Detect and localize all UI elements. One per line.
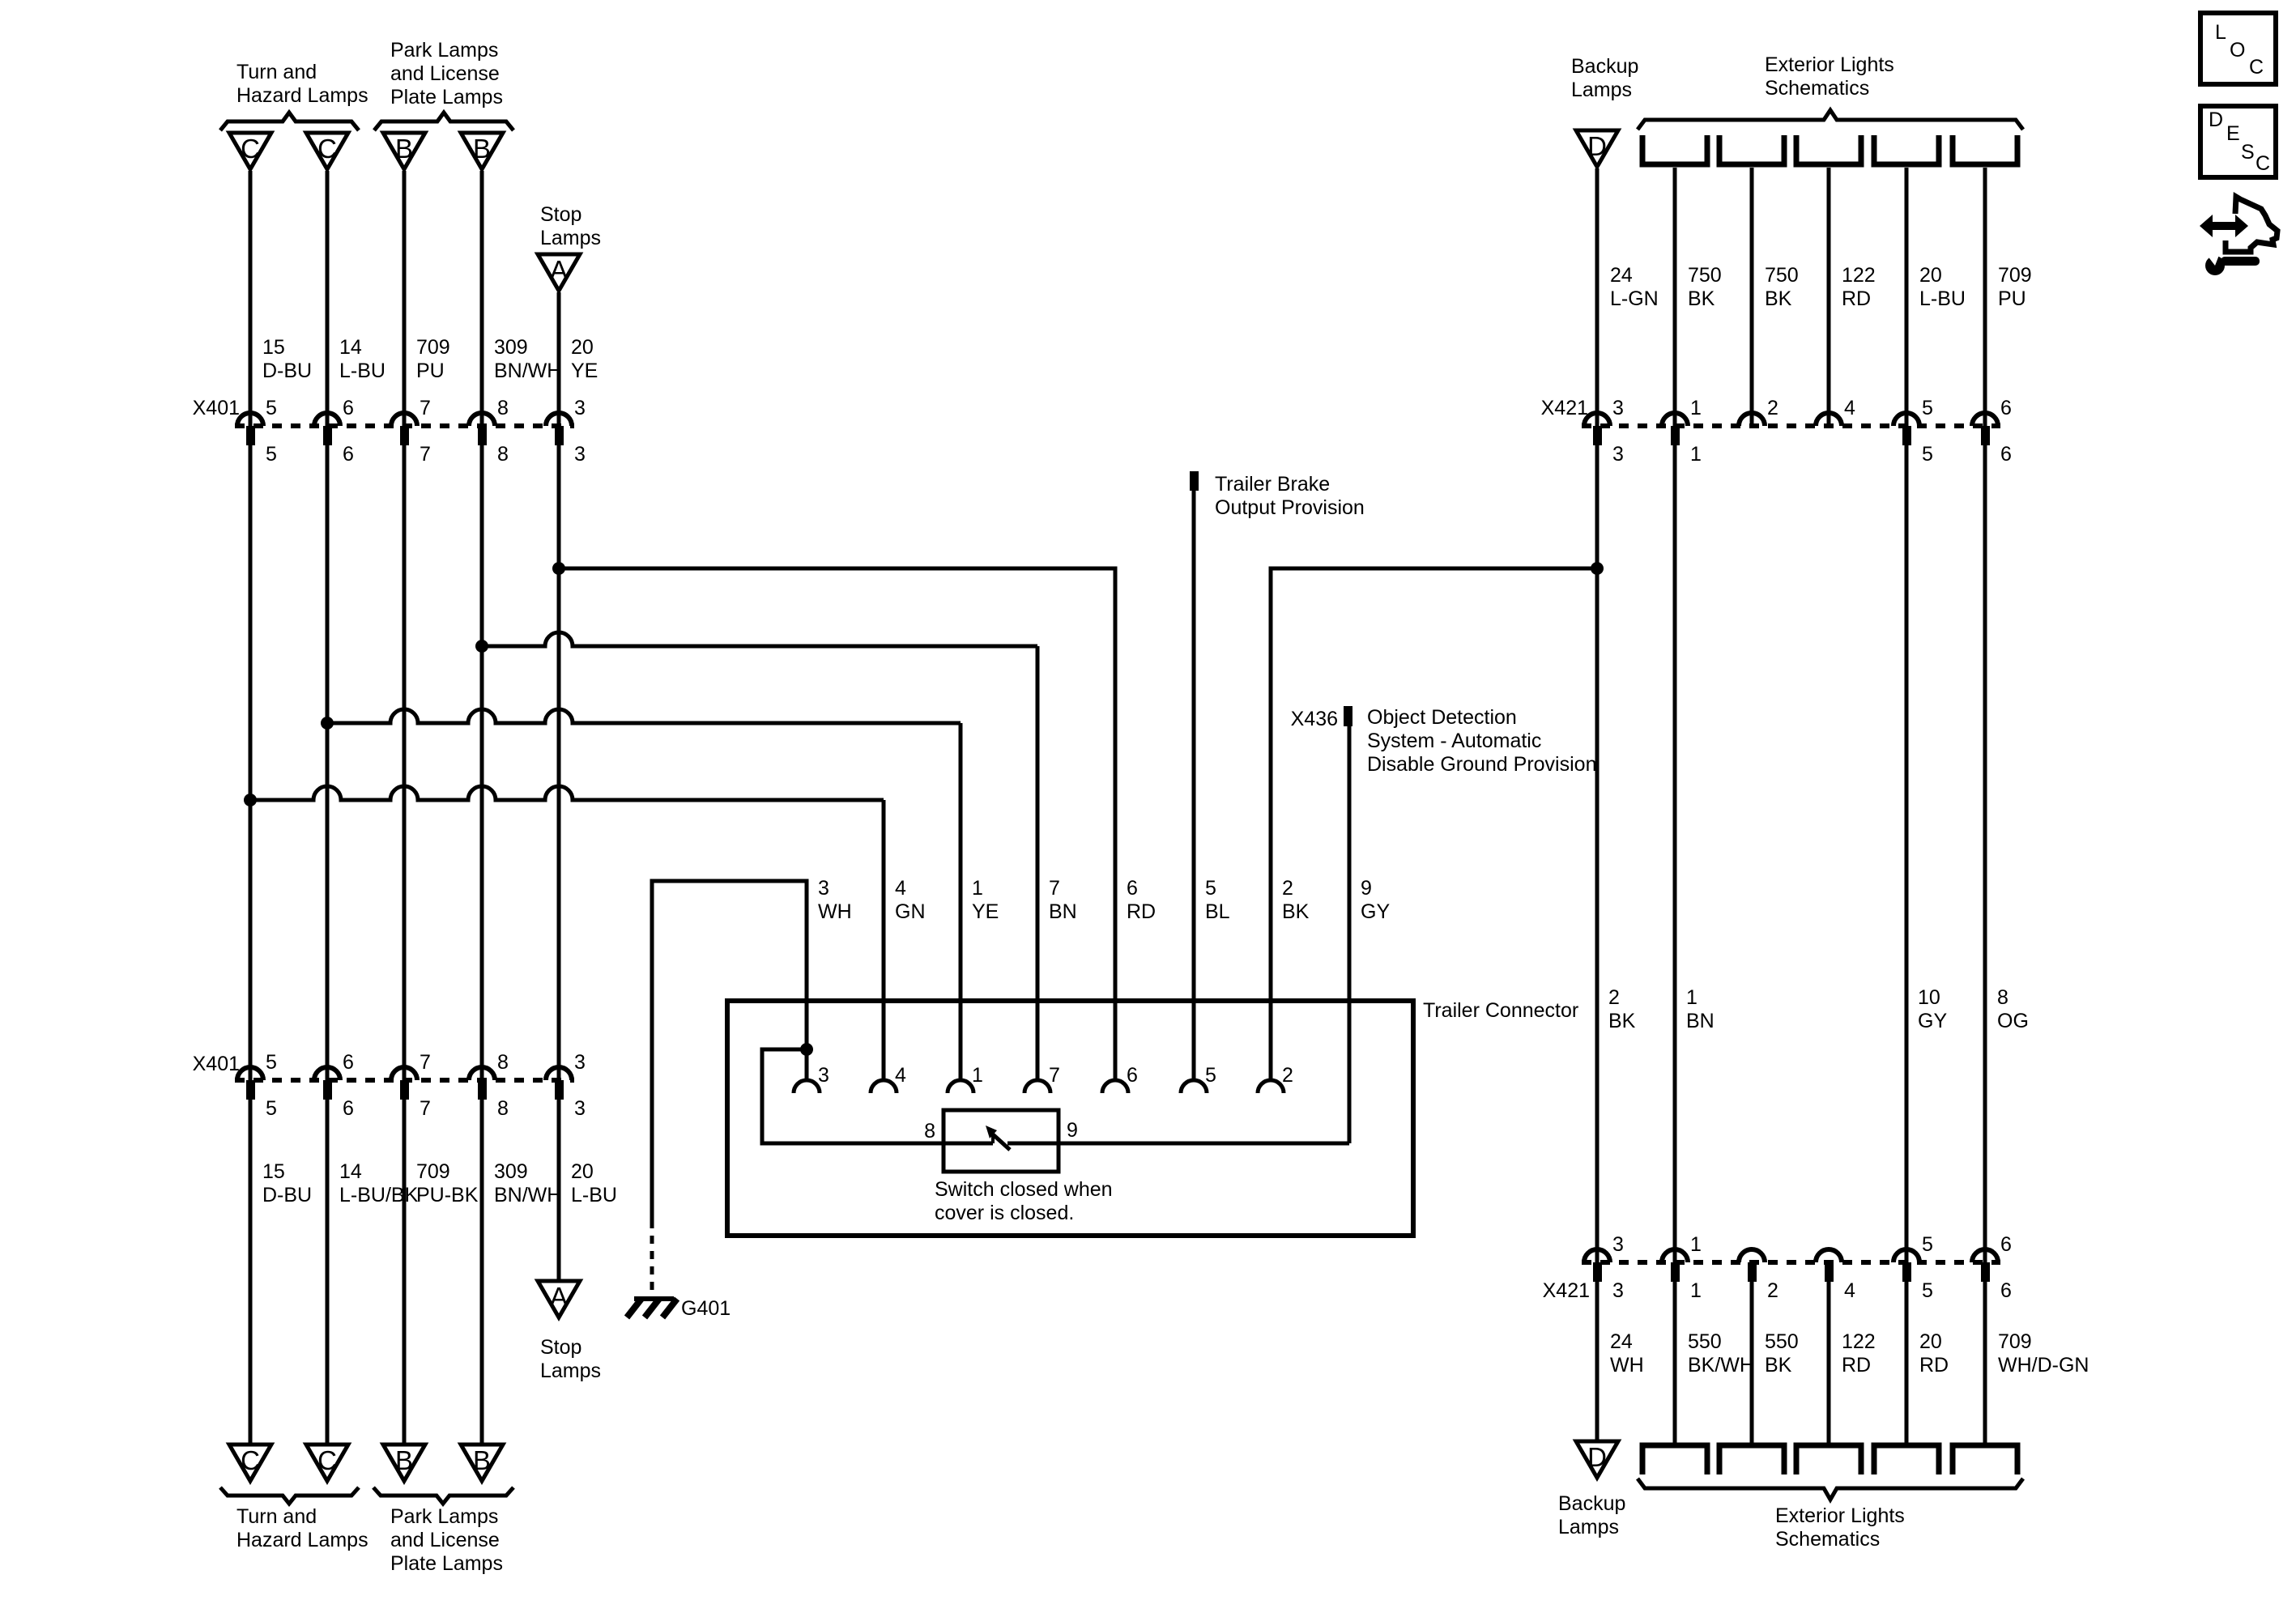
DESC reference box (2200, 106, 2276, 177)
svg-text:1: 1 (1690, 443, 1702, 466)
wire column BN/WH between X401 rows (480, 445, 484, 1080)
svg-text:B: B (395, 1445, 413, 1475)
svg-text:7: 7 (1049, 1064, 1060, 1087)
svg-text:122: 122 (1842, 264, 1876, 287)
svg-text:24: 24 (1610, 1330, 1633, 1353)
connector X421 bottom pin 1 plug (1671, 1262, 1680, 1282)
svg-text:4: 4 (1844, 397, 1855, 419)
svg-text:6: 6 (2000, 397, 2012, 419)
connector X401 top pin 8 socket arc (469, 413, 495, 426)
svg-text:G401: G401 (681, 1297, 731, 1320)
svg-text:7: 7 (420, 397, 431, 419)
svg-text:C: C (241, 134, 260, 164)
svg-text:6: 6 (343, 397, 354, 419)
connector X401 top pin 5 plug (246, 426, 255, 445)
svg-text:6: 6 (2000, 443, 2012, 466)
svg-text:C: C (241, 1445, 260, 1475)
svg-text:6: 6 (2000, 1233, 2012, 1256)
wire 750 BK bracket to X421-2 (1750, 168, 1754, 426)
svg-text:550: 550 (1765, 1330, 1799, 1353)
connector X421 bottom dashed line (1582, 1260, 2000, 1265)
svg-text:L-BU: L-BU (1919, 287, 1966, 310)
svg-text:BK: BK (1765, 1354, 1792, 1377)
svg-text:1: 1 (1686, 986, 1698, 1009)
page connector bracket bottom at x=2451 (1953, 1445, 2017, 1474)
svg-text:RD: RD (1842, 1354, 1871, 1377)
svg-text:A: A (550, 255, 568, 285)
svg-text:B: B (395, 134, 413, 164)
svg-text:4: 4 (895, 1064, 906, 1087)
page connector bracket bottom at x=2354 (1874, 1445, 1939, 1474)
svg-text:RD: RD (1919, 1354, 1949, 1377)
wire 20 L-BU bracket to X421-5 (1905, 168, 1909, 426)
svg-text:8: 8 (497, 397, 509, 419)
connector X421 top pin 6 socket arc (1972, 413, 1998, 426)
connector X401 bottom pin 8 plug (478, 1080, 487, 1100)
connector X401 top dashed line (235, 423, 574, 428)
svg-text:9: 9 (1067, 1119, 1078, 1142)
trailer connector pin 4 socket arc (871, 1080, 897, 1093)
connector X421 top pin 5 plug (1902, 426, 1911, 445)
svg-text:122: 122 (1842, 1330, 1876, 1353)
connector X401 top pin 3 plug (555, 426, 564, 445)
page connector bracket bottom at x=2163 (1719, 1445, 1784, 1474)
svg-text:8: 8 (924, 1120, 935, 1143)
connector X401 top pin 5 socket arc (237, 413, 263, 426)
svg-text:5: 5 (266, 397, 277, 419)
svg-text:Park Lamps: Park Lamps (390, 39, 498, 62)
connector X421 bottom pin 2 socket arc (1739, 1249, 1765, 1262)
svg-text:Plate Lamps: Plate Lamps (390, 1552, 503, 1575)
svg-text:GY: GY (1361, 900, 1390, 923)
wire 709 WH/D-GN to bracket (1983, 1282, 1987, 1445)
cover switch box (944, 1110, 1059, 1172)
trailer connector pin 2 socket arc (1258, 1080, 1284, 1093)
wire 20 L-BU to triangle A bottom (557, 1100, 561, 1281)
svg-text:20: 20 (571, 1160, 594, 1183)
svg-text:Turn and: Turn and (236, 1505, 317, 1528)
svg-text:Lamps: Lamps (1571, 79, 1632, 101)
svg-text:WH: WH (1610, 1354, 1644, 1377)
connector X421 bottom pin 3 plug (1593, 1262, 1602, 1282)
trailer connector pin 6 socket arc (1102, 1080, 1128, 1093)
triangle D bottom (backup lamps) (1576, 1441, 1618, 1478)
page connector bracket top at x=2258 (1796, 135, 1861, 164)
junction dot BN/WH at bus line 2 (475, 640, 488, 653)
svg-text:750: 750 (1765, 264, 1799, 287)
connector X401 bottom pin 5 socket arc (237, 1067, 263, 1080)
wire 709 PU-BK to triangle B1 bottom (403, 1100, 407, 1445)
trailer connector pin 5 socket arc (1181, 1080, 1207, 1093)
svg-text:GN: GN (895, 900, 926, 923)
svg-text:BK: BK (1608, 1010, 1636, 1032)
svg-text:Object Detection: Object Detection (1367, 706, 1517, 729)
wire 3 WH from G401 up and over to trailer pin 3 (652, 881, 807, 1220)
connector X401 bottom pin 7 plug (400, 1080, 409, 1100)
wire 24 WH to triangle D bottom (1595, 1282, 1600, 1441)
page connector bracket top at x=2163 (1719, 135, 1784, 164)
triangle B1 bottom (383, 1445, 425, 1481)
brace under exterior lights brackets (bottom) (1638, 1479, 2023, 1500)
connector X401 bottom pin 8 socket arc (469, 1067, 495, 1080)
wire 709 PU (B1 to X401-7) (403, 171, 407, 426)
svg-text:X401: X401 (193, 1053, 240, 1075)
svg-text:6: 6 (2000, 1279, 2012, 1302)
svg-text:20: 20 (1919, 264, 1942, 287)
wire 309 BN/WH (B2 to X401-8) (480, 171, 484, 426)
wire 10 GY column between X421 rows (1905, 445, 1909, 1262)
wire 309 BN/WH to triangle B2 bottom (480, 1100, 484, 1445)
svg-text:BL: BL (1205, 900, 1230, 923)
svg-text:5: 5 (1922, 443, 1933, 466)
wire 5 BL trailer brake to trailer pin 5 (1192, 491, 1196, 1079)
svg-text:5: 5 (266, 1051, 277, 1074)
svg-text:309: 309 (494, 336, 528, 359)
page connector bracket bottom at x=2258 (1796, 1445, 1861, 1474)
svg-text:3: 3 (818, 877, 829, 900)
brace over exterior lights brackets (top) (1638, 110, 2023, 130)
wire 750 BK bracket to X421-1 (1673, 168, 1677, 426)
connector X401 top pin 7 plug (400, 426, 409, 445)
connector X421 top dashed line (1582, 423, 2000, 428)
svg-text:3: 3 (574, 1051, 586, 1074)
svg-text:System - Automatic: System - Automatic (1367, 730, 1541, 752)
svg-text:BK: BK (1282, 900, 1310, 923)
svg-text:Schematics: Schematics (1775, 1528, 1880, 1551)
connector X421 bottom pin 4 plug (1825, 1262, 1834, 1282)
svg-text:20: 20 (1919, 1330, 1942, 1353)
svg-text:C: C (317, 134, 337, 164)
svg-text:1: 1 (1690, 397, 1702, 419)
svg-text:5: 5 (1922, 397, 1933, 419)
svg-text:L-BU/BK: L-BU/BK (339, 1184, 419, 1206)
connector X401 bottom pin 7 socket arc (391, 1067, 417, 1080)
svg-text:2: 2 (1282, 1064, 1293, 1087)
connector X401 bottom pin 6 socket arc (314, 1067, 340, 1080)
svg-text:Hazard Lamps: Hazard Lamps (236, 1529, 368, 1551)
bus wire 3: L-BU column to trailer pin 1 (hops over PU, BN/WH, YE) (327, 709, 961, 1079)
svg-text:709: 709 (416, 1160, 450, 1183)
svg-text:7: 7 (420, 1051, 431, 1074)
svg-text:BN/WH: BN/WH (494, 1184, 561, 1206)
triangle C2 top (turn and hazard lamps) (306, 133, 348, 169)
svg-text:PU-BK: PU-BK (416, 1184, 479, 1206)
connector X401 top pin 8 plug (478, 426, 487, 445)
svg-text:3: 3 (574, 1097, 586, 1120)
svg-text:3: 3 (1612, 1279, 1624, 1302)
svg-text:and License: and License (390, 62, 500, 85)
triangle C1 top (turn and hazard lamps) (229, 133, 271, 169)
svg-text:5: 5 (1922, 1233, 1933, 1256)
svg-text:3: 3 (1612, 1233, 1624, 1256)
connector X401 top pin 3 socket arc (546, 413, 572, 426)
wire 8 OG column between X421 rows (1983, 445, 1987, 1262)
svg-text:X421: X421 (1543, 1279, 1590, 1302)
wire 709 PU bracket to X421-6 (1983, 168, 1987, 426)
connector X401 top pin 7 socket arc (391, 413, 417, 426)
wire 14 L-BU (C2 to X401-6) (326, 171, 330, 426)
wire column YE between X401 rows (557, 445, 561, 1080)
connector X421 bottom pin 6 plug (1981, 1262, 1990, 1282)
connector X421 top pin 1 socket arc (1662, 413, 1688, 426)
svg-text:BK: BK (1765, 287, 1792, 310)
svg-text:7: 7 (1049, 877, 1060, 900)
svg-text:B: B (473, 1445, 491, 1475)
svg-text:14: 14 (339, 336, 362, 359)
connector X401 top pin 6 plug (323, 426, 332, 445)
junction dot backup-lamps column at bus line B (1591, 562, 1604, 575)
bus wire 2: BN/WH column to trailer pin 7 (hop over YE) (482, 632, 1037, 1079)
wire 14 L-BU/BK to triangle C2 bottom (326, 1100, 330, 1445)
page connector bracket top at x=2354 (1874, 135, 1939, 164)
connector X421 bottom pin 3 socket arc (1584, 1249, 1610, 1262)
svg-text:3: 3 (574, 397, 586, 419)
svg-text:2: 2 (1608, 986, 1620, 1009)
connector X421 bottom pin 2 plug (1748, 1262, 1757, 1282)
svg-text:E: E (2226, 122, 2240, 145)
svg-text:24: 24 (1610, 264, 1633, 287)
svg-text:4: 4 (895, 877, 906, 900)
connector X421 top pin 1 plug (1671, 426, 1680, 445)
svg-text:2: 2 (1767, 397, 1778, 419)
connector X421 bottom pin 5 plug (1902, 1262, 1911, 1282)
svg-text:750: 750 (1688, 264, 1722, 287)
svg-text:Plate Lamps: Plate Lamps (390, 86, 503, 109)
svg-text:Schematics: Schematics (1765, 77, 1869, 100)
svg-text:7: 7 (420, 443, 431, 466)
svg-text:GY: GY (1918, 1010, 1947, 1032)
brace over park/license triangles (top) (374, 113, 513, 130)
triangle C2 bottom (306, 1445, 348, 1481)
svg-text:Lamps: Lamps (1558, 1516, 1619, 1538)
svg-text:L-BU: L-BU (571, 1184, 617, 1206)
svg-text:309: 309 (494, 1160, 528, 1183)
wire 24 L-GN triangle D to X421-3 (1595, 168, 1600, 426)
svg-text:4: 4 (1844, 1279, 1855, 1302)
switch contact wire right to 9 GY wire (1007, 1142, 1349, 1146)
connector X421 top pin 3 plug (1593, 426, 1602, 445)
svg-text:BN: BN (1049, 900, 1077, 923)
svg-text:Trailer Connector: Trailer Connector (1423, 999, 1578, 1022)
svg-text:5: 5 (1205, 877, 1216, 900)
connector X401 bottom pin 6 plug (323, 1080, 332, 1100)
svg-text:6: 6 (343, 1097, 354, 1120)
svg-text:YE: YE (972, 900, 999, 923)
switch blade (993, 1134, 1010, 1150)
wire column L-BU between X401 rows (326, 445, 330, 1080)
page connector bracket top at x=2068 (1642, 135, 1707, 164)
svg-text:Backup: Backup (1571, 55, 1638, 78)
svg-text:L-BU: L-BU (339, 360, 386, 382)
ground symbol G401 (627, 1299, 677, 1317)
trailer connector outline box (727, 1001, 1413, 1236)
svg-text:D-BU: D-BU (262, 360, 312, 382)
svg-text:C: C (2249, 56, 2264, 79)
triangle D top (backup lamps) (1576, 130, 1618, 167)
junction dot D-BU at bus line 4 (244, 794, 257, 806)
wire 1 BN column between X421 rows (1673, 445, 1677, 1262)
connector X401 top pin 6 socket arc (314, 413, 340, 426)
brace under turn/hazard triangles (bottom) (220, 1487, 359, 1504)
svg-text:D: D (2209, 109, 2223, 131)
wire WH branch to cover switch pin 8 (762, 1049, 944, 1143)
svg-text:15: 15 (262, 1160, 285, 1183)
wire 550 BK/WH to bracket (1673, 1282, 1677, 1445)
svg-text:1: 1 (972, 877, 983, 900)
svg-text:6: 6 (1127, 877, 1138, 900)
svg-text:6: 6 (343, 1051, 354, 1074)
svg-text:Output Provision: Output Provision (1215, 496, 1365, 519)
svg-text:Trailer Brake: Trailer Brake (1215, 473, 1330, 496)
wire 15 D-BU to triangle C1 bottom (249, 1100, 253, 1445)
trailer connector pin 1 socket arc (948, 1080, 973, 1093)
connector X401 bottom pin 3 plug (555, 1080, 564, 1100)
connector X421 bottom pin 6 socket arc (1972, 1249, 1998, 1262)
wire 9 GY X436 to switch pin 9 (1348, 726, 1352, 1143)
triangle A bottom (stop lamps) (538, 1281, 580, 1317)
wire 15 D-BU (C1 to X401-5) (249, 171, 253, 426)
svg-text:5: 5 (266, 1097, 277, 1120)
wrench service icon (2204, 251, 2260, 275)
svg-text:2: 2 (1282, 877, 1293, 900)
svg-text:Exterior Lights: Exterior Lights (1775, 1504, 1905, 1527)
connector X421 bottom pin 1 socket arc (1662, 1249, 1688, 1262)
svg-text:709: 709 (1998, 264, 2032, 287)
svg-text:709: 709 (416, 336, 450, 359)
svg-text:Stop: Stop (540, 1336, 581, 1359)
triangle C1 bottom (229, 1445, 271, 1481)
svg-text:cover is closed.: cover is closed. (935, 1202, 1074, 1224)
wire 550 BK to bracket (1750, 1282, 1754, 1445)
svg-text:9: 9 (1361, 877, 1372, 900)
svg-text:Backup: Backup (1558, 1492, 1625, 1515)
svg-text:6: 6 (1127, 1064, 1138, 1087)
terminal Trailer Brake Output Provision (1190, 471, 1199, 491)
bus wire 4: D-BU column to trailer pin 4 (hops over L-BU, PU, BN/WH, YE) (250, 786, 884, 1079)
svg-text:5: 5 (1205, 1064, 1216, 1087)
svg-text:PU: PU (416, 360, 445, 382)
svg-text:O: O (2230, 39, 2245, 62)
svg-text:Hazard Lamps: Hazard Lamps (236, 84, 368, 107)
svg-text:X436: X436 (1291, 708, 1338, 730)
bus wire A: YE column to trailer pin 6 (559, 568, 1115, 1079)
connector X421 top pin 6 plug (1981, 426, 1990, 445)
svg-text:PU: PU (1998, 287, 2026, 310)
svg-text:BN: BN (1686, 1010, 1715, 1032)
svg-text:5: 5 (266, 443, 277, 466)
trailer connector pin 3 socket arc (794, 1080, 820, 1093)
svg-text:3: 3 (1612, 443, 1624, 466)
wire 20 YE (A to X401-3) (557, 292, 561, 426)
svg-text:8: 8 (497, 443, 509, 466)
triangle A top (stop lamps) (538, 254, 580, 291)
trailer connector pin 7 socket arc (1024, 1080, 1050, 1093)
svg-text:BK: BK (1688, 287, 1715, 310)
connector X401 bottom dashed line (235, 1078, 574, 1083)
svg-text:RD: RD (1842, 287, 1871, 310)
connector X421 bottom pin 5 socket arc (1893, 1249, 1919, 1262)
triangle B2 top (park lamps) (461, 133, 503, 169)
svg-text:Disable Ground Provision: Disable Ground Provision (1367, 753, 1596, 776)
car body direction icon (2200, 197, 2277, 252)
svg-text:6: 6 (343, 443, 354, 466)
svg-text:8: 8 (1997, 986, 2008, 1009)
svg-text:YE: YE (571, 360, 598, 382)
svg-text:8: 8 (497, 1051, 509, 1074)
svg-text:709: 709 (1998, 1330, 2032, 1353)
svg-text:RD: RD (1127, 900, 1156, 923)
svg-text:WH/D-GN: WH/D-GN (1998, 1354, 2089, 1377)
svg-text:X421: X421 (1541, 397, 1588, 419)
svg-text:Switch closed when: Switch closed when (935, 1178, 1113, 1201)
triangle B2 bottom (461, 1445, 503, 1481)
brace over turn/hazard triangles (top) (220, 113, 359, 130)
LOC reference box (2200, 13, 2276, 84)
triangle B1 top (park lamps) (383, 133, 425, 169)
connector X421 top pin 4 socket arc (1816, 413, 1842, 426)
wire 2 BK backup lamps column between X421 rows (1595, 445, 1600, 1262)
svg-text:BK/WH: BK/WH (1688, 1354, 1754, 1377)
wire column D-BU between X401 rows (249, 445, 253, 1080)
svg-text:C: C (317, 1445, 337, 1475)
svg-text:Park Lamps: Park Lamps (390, 1505, 498, 1528)
svg-text:Lamps: Lamps (540, 1360, 601, 1382)
connector X401 bottom pin 3 socket arc (546, 1067, 572, 1080)
junction dot WH wire to cover switch branch (800, 1043, 813, 1056)
wire column PU between X401 rows (403, 445, 407, 1080)
svg-text:2: 2 (1767, 1279, 1778, 1302)
bus wire B: trailer pin 2 to backup lamps column (1271, 568, 1597, 1079)
wire 20 RD to bracket (1905, 1282, 1909, 1445)
svg-text:B: B (473, 134, 491, 164)
connector X421 top pin 5 socket arc (1893, 413, 1919, 426)
connector X421 bottom pin 4 socket arc (1816, 1249, 1842, 1262)
svg-text:L: L (2215, 21, 2226, 44)
svg-text:and License: and License (390, 1529, 500, 1551)
connector X401 bottom pin 5 plug (246, 1080, 255, 1100)
junction dot L-BU at bus line 3 (321, 717, 334, 730)
svg-text:Turn and: Turn and (236, 61, 317, 83)
connector X421 top pin 3 socket arc (1584, 413, 1610, 426)
svg-text:5: 5 (1922, 1279, 1933, 1302)
switch contact post (991, 1134, 995, 1143)
wire 122 RD bracket to X421-4 (1827, 168, 1831, 426)
svg-text:15: 15 (262, 336, 285, 359)
svg-text:14: 14 (339, 1160, 362, 1183)
svg-text:D: D (1587, 1442, 1607, 1472)
svg-text:1: 1 (1690, 1279, 1702, 1302)
svg-text:1: 1 (972, 1064, 983, 1087)
svg-text:Exterior Lights: Exterior Lights (1765, 53, 1894, 76)
junction dot YE at bus line A (552, 562, 565, 575)
svg-text:L-GN: L-GN (1610, 287, 1659, 310)
svg-text:3: 3 (574, 443, 586, 466)
svg-text:1: 1 (1690, 1233, 1702, 1256)
svg-text:10: 10 (1918, 986, 1940, 1009)
svg-text:OG: OG (1997, 1010, 2029, 1032)
svg-text:8: 8 (497, 1097, 509, 1120)
svg-text:Stop: Stop (540, 203, 581, 226)
svg-text:BN/WH: BN/WH (494, 360, 561, 382)
svg-text:D: D (1587, 131, 1607, 161)
svg-text:C: C (2256, 152, 2270, 175)
brace under park/license triangles (bottom) (373, 1487, 513, 1504)
dashed wire to ground G401 (650, 1220, 654, 1296)
terminal X436 (1344, 706, 1352, 726)
svg-text:D-BU: D-BU (262, 1184, 312, 1206)
switch contact wire left (944, 1142, 993, 1146)
svg-text:3: 3 (818, 1064, 829, 1087)
